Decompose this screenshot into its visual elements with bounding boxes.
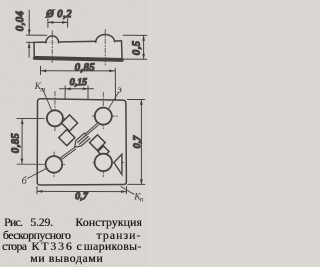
caption line 2 — [3, 230, 71, 242]
label Kt leader — [42, 89, 52, 111]
dimension 0,5: vertical line with arrows — [142, 35, 145, 59]
dimension Ø0,2: left extension line — [47, 19, 49, 27]
dimension 0,04: lower extension line (body top level) — [26, 41, 33, 43]
collector pad upper square 2 (rotated) — [59, 130, 75, 146]
collector pad upper square 1 (rotated) — [61, 115, 77, 131]
dimension 0,15: left extension line — [64, 86, 66, 99]
collector pad lower square 3 (rotated) — [90, 135, 106, 151]
caption line 4 — [30, 253, 103, 265]
dimension 0,7 (bottom): extension lines — [36, 187, 38, 194]
centerline vertical, ball b — [53, 152, 55, 177]
centerline horizontal, ball b — [17, 163, 40, 165]
dimension 0,85 (top): line with arrows — [41, 69, 115, 72]
dimension 0,15: line with arrows — [60, 87, 94, 90]
dimension 0,7 (right): extension lines — [127, 99, 145, 101]
centerline through bump 2 — [104, 30, 106, 66]
crystal with emitter fingers (fork) — [75, 133, 90, 147]
centerline through bump 1 — [51, 31, 53, 63]
centerline vertical, ball Kp — [102, 149, 104, 177]
dimension 0,5: bottom extension line — [123, 58, 147, 60]
ball e (top-right circle) — [95, 108, 112, 125]
paper texture overlay — [0, 0, 1, 1]
dimension 0,85 (top): right extension line — [114, 68, 116, 99]
caption line 1 — [4, 217, 22, 229]
dimension 0,5: top extension line — [123, 34, 147, 36]
base lead (double line from ball b) — [60, 148, 76, 160]
collector pad lower square 4 (rotated) — [98, 146, 109, 157]
dimension 0,15: right extension line — [87, 86, 89, 99]
plan view: chip plate square — [37, 99, 126, 185]
dimension 0,7 (bottom): line with arrows — [37, 190, 127, 193]
centerline vertical, ball e — [102, 93, 104, 129]
ball Kt (top-left circle) — [47, 110, 63, 126]
dimension 0,85 (top): left extension line — [40, 66, 42, 74]
dimension 0,04: up arrow — [28, 43, 31, 58]
dimension 0,04: upper extension line (ball top level) — [26, 34, 46, 36]
orientation key triangle — [114, 154, 122, 174]
dimension Ø0,2: right extension line — [67, 19, 69, 27]
emitter lead (double line to ball e) — [85, 124, 98, 136]
side view: transistor body rectangle — [34, 41, 122, 59]
centerline horizontal, ball Kp — [93, 162, 123, 164]
label e leader — [108, 93, 118, 109]
dimension 0,04: down arrow — [28, 10, 31, 35]
label Kp leader — [121, 187, 134, 195]
label b leader — [28, 168, 47, 178]
centerline vertical, ball Kt — [54, 92, 56, 131]
ball lead bump 2 (side view) — [96, 35, 115, 43]
dimension 0,85 (left): line with arrows — [21, 119, 24, 164]
ball lead bump 1 (side view) — [46, 36, 59, 43]
dimension Ø0,2: arrows — [48, 21, 68, 24]
side view: thick bottom edge — [35, 58, 123, 60]
centerline horizontal, ball Kt — [17, 118, 40, 120]
dimension 0,7 (right): line with arrows — [140, 100, 143, 185]
centerline horizontal, ball e — [93, 115, 118, 117]
caption line 3 — [2, 241, 26, 253]
ball Kp (bottom-right circle) — [95, 154, 112, 171]
ball b (bottom-left circle) — [46, 156, 63, 173]
